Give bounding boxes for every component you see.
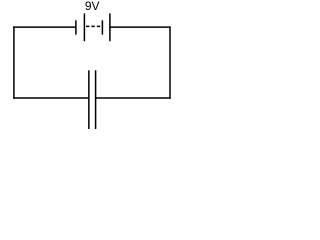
capacitor: left plate	[88, 70, 90, 129]
battery: left tall plate (positive)	[83, 13, 85, 41]
wire: top-left segment	[13, 26, 76, 28]
battery: left short plate (negative)	[75, 20, 77, 34]
battery: dashed cells link	[86, 25, 100, 27]
wire: bottom-right segment	[96, 97, 171, 99]
wire: bottom-left segment	[13, 97, 89, 99]
battery: right tall plate (positive)	[109, 13, 111, 41]
wire: right vertical segment	[169, 26, 171, 98]
capacitor (bottom center)	[89, 70, 96, 129]
battery: right short plate (negative)	[101, 20, 103, 34]
wire: left vertical segment	[13, 26, 15, 98]
battery 9V (multi-cell)	[76, 13, 110, 41]
wire: top-right segment	[110, 26, 171, 28]
svg-text:9V: 9V	[85, 0, 100, 13]
capacitor: right plate	[95, 70, 97, 129]
